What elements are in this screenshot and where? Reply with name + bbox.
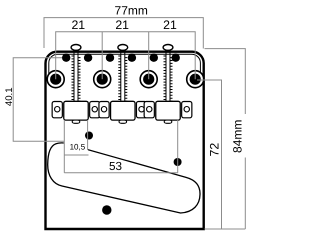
mounting screw hole 2 bbox=[94, 71, 111, 88]
extension line pickup dot B bbox=[177, 120, 179, 173]
svg-text:53: 53 bbox=[109, 160, 122, 173]
saddle 1 bbox=[52, 101, 100, 123]
saddle 2 bbox=[99, 101, 147, 123]
dimension 21 line bbox=[56, 32, 196, 79]
dimension 10,5 bracket left line bbox=[63, 120, 65, 173]
dimension 53 line bbox=[64, 172, 177, 174]
svg-text:21: 21 bbox=[71, 18, 85, 32]
string hole 1 bbox=[62, 54, 70, 62]
intonation screw 2 bbox=[118, 45, 128, 102]
pickup screw hole A bbox=[85, 132, 93, 140]
svg-text:84mm: 84mm bbox=[230, 120, 244, 153]
dimension 72 line bbox=[197, 80, 222, 229]
dimension 10,5 bracket bottom line bbox=[64, 154, 88, 156]
dimension 77mm line bbox=[44, 18, 203, 49]
intonation screw 1 bbox=[71, 45, 81, 102]
pickup cutout (slanted capsule) bbox=[48, 143, 200, 213]
intonation screw 3 bbox=[163, 45, 173, 102]
string hole 2 bbox=[84, 54, 92, 62]
string hole 5 bbox=[150, 54, 158, 62]
saddle 3 bbox=[144, 101, 192, 123]
string hole 6 bbox=[172, 54, 180, 62]
svg-text:10,5: 10,5 bbox=[70, 143, 86, 152]
string hole 4 bbox=[128, 54, 136, 62]
svg-text:21: 21 bbox=[115, 18, 129, 32]
svg-text:72: 72 bbox=[208, 143, 222, 157]
dimension 10,5 bracket right line bbox=[87, 120, 89, 150]
bridge plate inner lip line bbox=[49, 54, 201, 84]
pickup screw hole B bbox=[174, 158, 182, 166]
svg-text:77mm: 77mm bbox=[115, 4, 148, 18]
bridge plate outer outline bbox=[46, 52, 204, 229]
string hole 3 bbox=[106, 54, 114, 62]
mounting screw hole 3 bbox=[140, 71, 157, 88]
mounting screw hole 1 bbox=[47, 71, 64, 88]
label mask box for 10,5 bbox=[64, 122, 88, 155]
dimension 40.1 bracket bbox=[13, 58, 64, 142]
svg-text:40.1: 40.1 bbox=[4, 87, 15, 106]
pickup screw hole C bbox=[102, 205, 111, 214]
extension line ring2 bbox=[101, 32, 103, 79]
svg-text:21: 21 bbox=[163, 18, 177, 32]
dimension 84mm line bbox=[205, 49, 246, 114]
extension line ring3 bbox=[148, 32, 150, 79]
mounting screw hole 4 bbox=[187, 71, 204, 88]
